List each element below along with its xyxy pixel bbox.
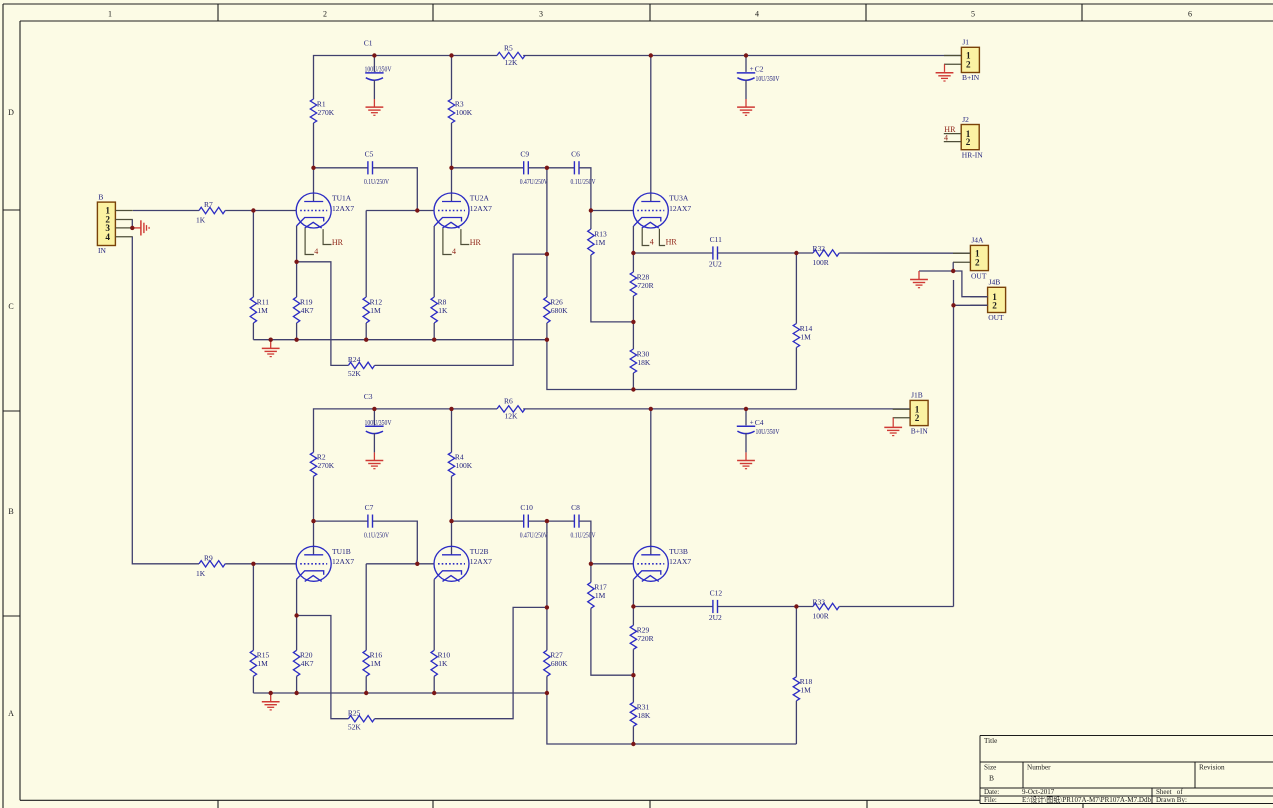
svg-text:Title: Title (984, 737, 997, 745)
wire TU2B grid line (366, 563, 434, 565)
wire R31 column (632, 675, 634, 702)
svg-text:C6: C6 (571, 150, 580, 159)
junction at 546.9,607.4 (545, 605, 549, 609)
svg-text:12AX7: 12AX7 (332, 557, 354, 566)
wire input to R7 (133, 210, 199, 212)
junction at 253.4,563.8 (251, 562, 255, 566)
junction at 451.5,55.5 (449, 53, 453, 57)
svg-text:B+IN: B+IN (962, 73, 980, 82)
wire R13 bottom to R28 node (591, 255, 634, 322)
junction at 746,55.5 (744, 53, 748, 57)
capacitor C11 (712, 246, 714, 259)
connector J1B (910, 400, 928, 425)
resistor R1 (310, 99, 316, 123)
svg-text:TU3B: TU3B (669, 547, 688, 556)
bottom zone tick x=218 (217, 800, 219, 808)
wire R29 to node (632, 649, 634, 675)
junction at 633.4,389.5 (631, 387, 635, 391)
svg-text:+: + (750, 65, 754, 73)
svg-text:B: B (989, 774, 994, 783)
svg-text:2: 2 (966, 137, 971, 147)
junction at 366.2,339.7 (364, 338, 368, 342)
capacitor C10 (523, 515, 525, 528)
wire J4A pin2 to ground node (919, 262, 953, 271)
svg-text:HR-IN: HR-IN (962, 150, 983, 159)
svg-text:1M: 1M (370, 306, 381, 315)
svg-text:2U2: 2U2 (709, 260, 722, 269)
svg-text:680K: 680K (551, 659, 568, 668)
svg-text:C: C (8, 302, 13, 311)
svg-text:Date:: Date: (984, 788, 999, 796)
wire R28 to node (632, 296, 634, 322)
svg-text:10U/350V: 10U/350V (756, 428, 781, 436)
wire B+ rail A right segment (523, 55, 961, 57)
wire output line A to C11 (633, 252, 713, 254)
junction at 590.9,210.5 (589, 208, 593, 212)
wire R11 to ground bus (252, 323, 254, 340)
resistor R28 (630, 272, 636, 296)
svg-text:0.47U/250V: 0.47U/250V (520, 531, 548, 540)
svg-text:6: 6 (1188, 10, 1192, 19)
svg-text:R32: R32 (813, 244, 826, 253)
junction at 746,408.9 (744, 407, 748, 411)
wire R29 column (632, 607, 634, 626)
svg-text:D: D (8, 108, 14, 117)
triode TU3A (633, 193, 668, 228)
wire R12 column (365, 211, 367, 298)
svg-text:3: 3 (539, 10, 543, 19)
svg-text:R5: R5 (504, 43, 513, 52)
wire C8 to TU3B grid (579, 521, 591, 564)
left zone tick y=411 (3, 410, 20, 412)
svg-text:OUT: OUT (988, 313, 1004, 322)
resistor R26 (544, 297, 550, 323)
junction at 434.2,693 (432, 691, 436, 695)
capacitor C8 (573, 515, 575, 528)
triode TU1A (296, 193, 331, 228)
wire R16 to ground bus B (365, 676, 367, 693)
wire ground bus A (253, 339, 547, 341)
wire R33 riser to J4B pin2 junction (953, 280, 955, 607)
svg-text:2U2: 2U2 (709, 613, 722, 622)
svg-text:12AX7: 12AX7 (669, 204, 691, 213)
wire R30 to low rail A (632, 373, 634, 390)
resistor R25 (348, 716, 374, 722)
svg-text:B: B (98, 192, 103, 201)
svg-text:12K: 12K (505, 411, 519, 420)
junction at 296.6,261.8 (294, 260, 298, 264)
heater pin 4 of TU2A (443, 228, 452, 254)
svg-text:0.1U/250V: 0.1U/250V (364, 177, 389, 186)
ground (944, 72, 946, 73)
wire C12 to R33 node (718, 606, 813, 608)
wire TU3A plate column (650, 56, 652, 202)
svg-text:Sheet of: Sheet of (1156, 788, 1183, 796)
pin 4 of B (115, 236, 132, 238)
svg-text:100K: 100K (456, 461, 473, 470)
svg-text:1K: 1K (196, 216, 206, 225)
svg-text:Size: Size (984, 764, 996, 772)
connector B (97, 202, 115, 245)
svg-text:1M: 1M (595, 238, 606, 247)
pin 1 of J4A (953, 252, 970, 254)
wire R27 bottom to low rail B (547, 676, 797, 744)
svg-text:File:: File: (984, 796, 997, 804)
wire J1B pin2 to ground (892, 418, 894, 427)
wire R18 to low rail B (795, 701, 797, 744)
svg-text:C10: C10 (520, 503, 533, 512)
wire C7 to TU2B grid (372, 521, 417, 564)
junction at 451.5,408.9 (449, 407, 453, 411)
svg-text:J1B: J1B (911, 391, 923, 400)
svg-text:TU2A: TU2A (470, 194, 490, 203)
junction at 650.8,55.5 (649, 53, 653, 57)
ground (918, 271, 920, 280)
left zone tick y=616 (3, 615, 20, 617)
resistor R7 (199, 207, 225, 213)
svg-text:1M: 1M (257, 659, 268, 668)
triode TU3B (633, 546, 668, 581)
svg-text:12AX7: 12AX7 (470, 557, 492, 566)
capacitor C4 (745, 409, 747, 425)
svg-text:C2: C2 (755, 65, 764, 74)
wire TU1A cathode (296, 226, 298, 262)
wire R28 column (632, 253, 634, 272)
resistor R2 (310, 452, 316, 476)
svg-text:+: + (750, 419, 754, 427)
resistor R3 (448, 99, 454, 123)
svg-text:100U/350V: 100U/350V (365, 66, 393, 74)
wire R8 to ground bus (433, 323, 435, 340)
wire R15 column (252, 564, 254, 651)
svg-text:Number: Number (1027, 764, 1051, 772)
svg-text:C1: C1 (364, 39, 373, 48)
triode TU2A (434, 193, 469, 228)
ground (737, 460, 755, 462)
svg-text:1M: 1M (595, 591, 606, 600)
pin 2 of J4A (953, 261, 970, 263)
heater pin 4 of TU1A (305, 228, 314, 254)
capacitor C9 (523, 161, 525, 174)
svg-text:C12: C12 (710, 588, 723, 597)
svg-text:C8: C8 (571, 503, 580, 512)
svg-text:4: 4 (755, 10, 759, 19)
resistor R29 (630, 625, 636, 649)
triode TU1B (296, 546, 331, 581)
svg-text:C5: C5 (365, 150, 374, 159)
wire R17 top (590, 564, 592, 583)
wire C6 to TU3A grid (579, 168, 591, 211)
resistor R30 (630, 349, 636, 373)
resistor R15 (250, 650, 256, 676)
inner border bottom (20, 799, 980, 801)
capacitor C2 (745, 56, 747, 72)
svg-text:TU1A: TU1A (332, 194, 352, 203)
svg-text:Drawn By:: Drawn By: (1156, 796, 1187, 804)
svg-text:2: 2 (323, 10, 327, 19)
wire B+ rail B left segment (314, 409, 498, 452)
svg-text:680K: 680K (551, 306, 568, 315)
wire junction to J4B pin2 (954, 304, 988, 306)
wire R12 to ground bus (365, 323, 367, 340)
svg-text:1K: 1K (438, 306, 448, 315)
resistor R12 (363, 297, 369, 323)
svg-text:Revision: Revision (1199, 764, 1225, 772)
svg-text:4: 4 (650, 238, 654, 247)
resistor R9 (199, 561, 225, 567)
junction at 546.9,254.1 (545, 252, 549, 256)
junction at 296.6,693 (294, 691, 298, 695)
outer border left (2, 4, 4, 808)
wire J1 pin2 to ground (944, 64, 946, 72)
wire C9 to C6 (528, 167, 574, 169)
svg-text:720R: 720R (637, 634, 653, 643)
wire ground bus B (253, 692, 547, 694)
svg-text:C7: C7 (365, 503, 374, 512)
svg-text:R33: R33 (813, 597, 826, 606)
wire R20 column (296, 616, 298, 651)
resistor R18 (793, 677, 799, 701)
junction at 451.5,521.1 (449, 519, 453, 523)
svg-text:1M: 1M (800, 686, 811, 695)
wire R31 to low rail B (632, 726, 634, 744)
svg-text:1K: 1K (196, 569, 206, 578)
wire R4 bottom to plate of TU2B (451, 476, 453, 555)
wire TU1B cathode (296, 579, 298, 615)
top zone tick x=650 (649, 4, 651, 21)
connector J2 (961, 125, 979, 150)
resistor R10 (431, 650, 437, 676)
wire TU2A grid line (366, 210, 434, 212)
wire TU1B cathode to R25 (297, 616, 349, 719)
resistor R33 (813, 603, 839, 609)
junction at 253.4,210.5 (251, 208, 255, 212)
svg-text:4K7: 4K7 (301, 659, 314, 668)
resistor R17 (588, 582, 594, 608)
junction at 546.9,339.7 (545, 338, 549, 342)
svg-text:E:\设计\图纸\PR107A-M7\PR107A-M7.D: E:\设计\图纸\PR107A-M7\PR107A-M7.Ddb (1022, 795, 1152, 804)
junction at 417.3,210.5 (415, 208, 419, 212)
svg-text:J1: J1 (962, 38, 969, 47)
junction at 313.5,521.1 (311, 519, 315, 523)
svg-text:C4: C4 (755, 418, 764, 427)
pin 2 of B (115, 219, 132, 221)
junction at 633.4,675.2 (631, 673, 635, 677)
svg-text:4: 4 (105, 232, 110, 242)
ground (366, 106, 384, 108)
wire TU2A cathode to R8 (433, 226, 435, 297)
svg-text:0.1U/250V: 0.1U/250V (571, 177, 596, 186)
wire R20 to ground bus B (296, 676, 298, 693)
junction at 374.4,408.9 (372, 407, 376, 411)
junction at 633.4,744 (631, 742, 635, 746)
svg-text:R9: R9 (204, 553, 213, 562)
svg-text:1M: 1M (800, 332, 811, 341)
junction at 374.4,55.5 (372, 53, 376, 57)
wire R25 to feedback node B (375, 607, 547, 718)
wire R2 bottom to plate of TU1B (313, 476, 315, 555)
connector J4A (970, 245, 988, 270)
resistor R5 (497, 52, 525, 58)
heater pin HR of TU2A (461, 229, 469, 244)
resistor R13 (588, 229, 594, 255)
pin 1 of J4B (970, 296, 987, 298)
svg-text:18K: 18K (637, 711, 651, 720)
svg-text:270K: 270K (318, 461, 335, 470)
wire R3 top (451, 56, 453, 100)
wire IN pin4 down to channel B input (132, 237, 199, 564)
pin 2 of J1 (944, 63, 961, 65)
junction at 451.5,167.8 (449, 166, 453, 170)
svg-text:1K: 1K (438, 659, 448, 668)
junction at 434.2,339.7 (432, 338, 436, 342)
svg-text:2: 2 (966, 59, 971, 69)
wire TU3B cathode (632, 579, 634, 606)
inner border top (20, 20, 1273, 22)
left zone tick y=210 (3, 209, 20, 211)
junction at 296.6,339.7 (294, 338, 298, 342)
bottom zone tick x=433 (432, 800, 434, 808)
wire C7 line from plate node (314, 520, 369, 522)
junction at 796.4,253 (794, 251, 798, 255)
wire R19 to ground bus (296, 323, 298, 340)
svg-text:52K: 52K (348, 369, 362, 378)
bottom zone tick x=867 (866, 800, 868, 808)
wire R18 column (795, 607, 797, 677)
svg-text:9-Oct-2017: 9-Oct-2017 (1022, 788, 1055, 796)
pin 1 of J2 (944, 133, 961, 135)
wire R10 to ground bus B (433, 676, 435, 693)
heater pin HR of TU1A (323, 229, 331, 244)
svg-text:TU3A: TU3A (669, 194, 689, 203)
svg-text:R6: R6 (504, 397, 513, 406)
wire R17 bottom to R29 node (591, 608, 634, 675)
svg-text:100R: 100R (813, 258, 829, 267)
svg-text:5: 5 (971, 10, 975, 19)
junction at 953.2,271 (951, 269, 955, 273)
svg-text:1: 1 (108, 10, 112, 19)
svg-text:R24: R24 (348, 355, 361, 364)
junction at 953.5,305.3 (951, 303, 955, 307)
wire R1 bottom to plate of TU1A (313, 123, 315, 202)
resistor R31 (630, 702, 636, 726)
svg-text:C11: C11 (710, 235, 722, 244)
svg-text:18K: 18K (637, 358, 651, 367)
svg-text:R25: R25 (348, 708, 361, 717)
capacitor C12 (712, 600, 714, 613)
svg-text:0.1U/250V: 0.1U/250V (364, 531, 389, 540)
svg-text:12K: 12K (505, 58, 519, 67)
wire R11 column (252, 211, 254, 298)
svg-text:J4B: J4B (989, 278, 1001, 287)
top zone tick x=1082 (1081, 4, 1083, 21)
svg-text:0.1U/250V: 0.1U/250V (571, 531, 596, 540)
svg-text:J4A: J4A (971, 236, 984, 245)
wire R24 to feedback node A (375, 254, 547, 365)
triode TU2B (434, 546, 469, 581)
resistor R6 (497, 406, 525, 412)
inner border left (19, 21, 21, 800)
svg-text:0.47U/250V: 0.47U/250V (520, 177, 548, 186)
pin 1 of B (115, 210, 132, 212)
svg-text:TU1B: TU1B (332, 547, 351, 556)
resistor R11 (250, 297, 256, 323)
junction at 132.3,227.9 (130, 226, 134, 230)
pin 1 of J1B (893, 408, 910, 410)
svg-text:HR: HR (666, 238, 678, 247)
wire ground node to J4B pin1 (953, 271, 987, 297)
svg-text:1M: 1M (257, 306, 268, 315)
junction at 296.6,615.5 (294, 613, 298, 617)
pin 3 of B (115, 227, 132, 229)
svg-text:4: 4 (944, 134, 948, 143)
junction at 633.4,253 (631, 251, 635, 255)
pin 2 of J2 (944, 141, 961, 143)
resistor R27 (544, 650, 550, 676)
wire R19 column (296, 262, 298, 297)
wire R14 to low rail A (795, 348, 797, 390)
wire C11 to R32 node (718, 252, 813, 254)
wire feedback vertical A upper (546, 168, 548, 297)
junction at 546.9,167.8 (545, 166, 549, 170)
svg-text:4: 4 (314, 247, 318, 256)
wire B+ rail B right segment (523, 408, 910, 410)
top zone tick x=866 (865, 4, 867, 21)
wire TU3A cathode (632, 226, 634, 253)
svg-text:2: 2 (915, 413, 920, 423)
ground (892, 426, 894, 427)
wire plate node TU2A to C9 (452, 167, 524, 169)
junction at 313.5,167.8 (311, 166, 315, 170)
resistor R20 (293, 650, 299, 676)
ground (737, 106, 755, 108)
svg-text:HR: HR (470, 238, 482, 247)
svg-text:TU2B: TU2B (470, 547, 489, 556)
svg-text:720R: 720R (637, 281, 653, 290)
wire plate node TU2B to C10 (452, 520, 524, 522)
wire TU3A grid line (591, 210, 633, 212)
resistor R24 (348, 362, 374, 368)
outer border top (3, 3, 1273, 5)
svg-text:12AX7: 12AX7 (669, 557, 691, 566)
pin 2 of J4B (970, 304, 987, 306)
junction at 270.7,339.7 (269, 338, 273, 342)
capacitor C3 (373, 409, 375, 425)
svg-text:2: 2 (975, 258, 980, 268)
resistor R16 (363, 650, 369, 676)
wire TU3B plate column (650, 409, 652, 555)
svg-text:OUT: OUT (971, 271, 987, 280)
junction at 796.4,606.5 (794, 604, 798, 608)
junction at 650.8,408.9 (649, 407, 653, 411)
junction at 270.7,693 (269, 691, 273, 695)
capacitor C6 (573, 161, 575, 174)
resistor R14 (793, 324, 799, 348)
svg-text:100K: 100K (456, 108, 473, 117)
ground (270, 340, 272, 349)
resistor R32 (813, 250, 839, 256)
svg-text:52K: 52K (348, 722, 362, 731)
pin 1 of J1 (944, 55, 961, 57)
capacitor C7 (367, 515, 369, 528)
svg-text:2: 2 (992, 301, 997, 311)
wire output line B to C12 (633, 606, 713, 608)
junction at 633.4,606.5 (631, 604, 635, 608)
junction at 546.9,521.1 (545, 519, 549, 523)
capacitor C1 (373, 56, 375, 72)
ground (132, 227, 141, 229)
svg-text:10U/350V: 10U/350V (756, 75, 781, 83)
